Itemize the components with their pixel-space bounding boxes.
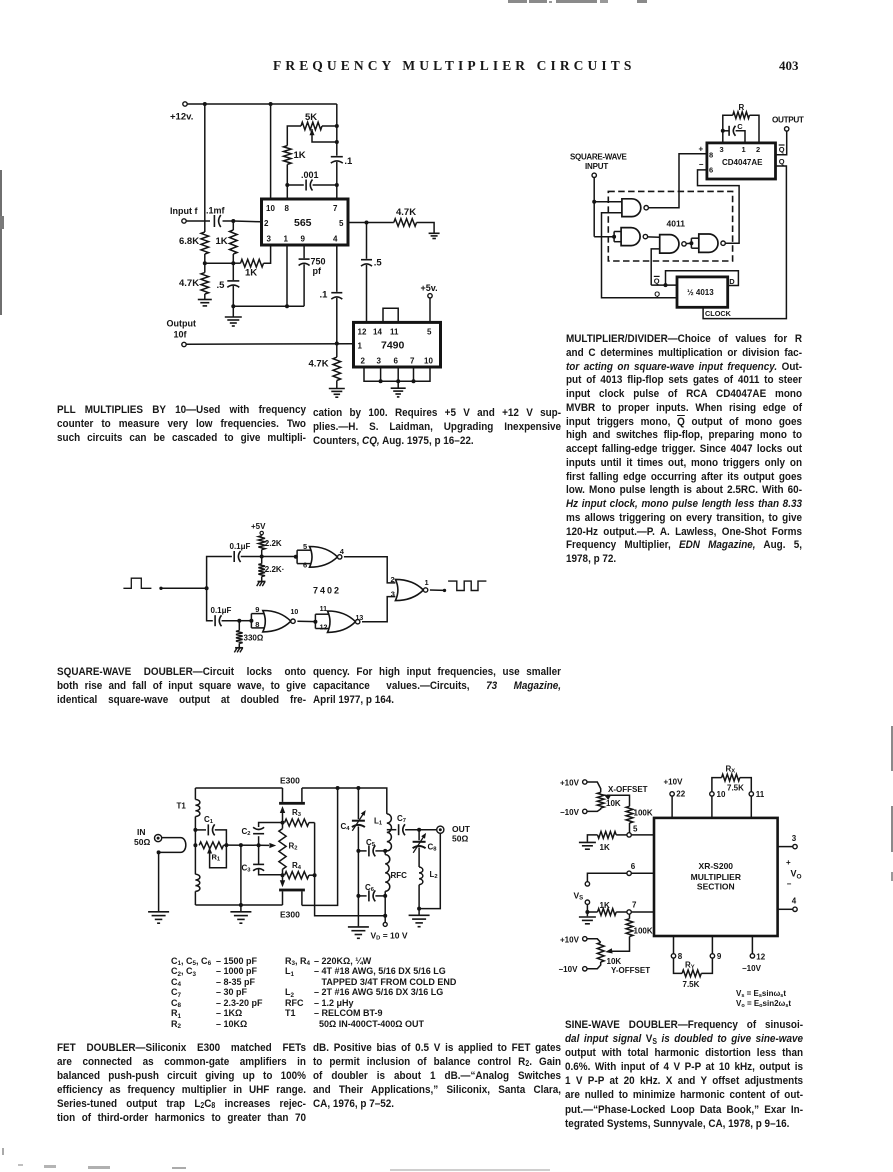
- svg-text:8: 8: [709, 151, 713, 160]
- fet Q2 E300 lower: [279, 875, 305, 905]
- resistor R3: [285, 808, 315, 826]
- wire C4 chain down: [357, 851, 359, 927]
- wire upper branch: [207, 557, 232, 589]
- source Vs top: [585, 882, 589, 886]
- potentiometer R1: [199, 842, 226, 868]
- node coax gnd: [157, 850, 161, 854]
- resistor R4: [285, 861, 315, 879]
- wiper R2 arrow: [259, 843, 277, 848]
- svg-text:−: −: [787, 879, 792, 888]
- wiper 5K: [310, 129, 337, 142]
- wire bottom rail left: [195, 904, 282, 906]
- node L2/gnd: [417, 907, 421, 911]
- node gate1 tie: [294, 555, 298, 559]
- svg-text:C: C: [737, 122, 743, 131]
- node T1/C1: [193, 828, 197, 832]
- wire Qbar stub: [651, 284, 677, 286]
- svg-text:5: 5: [427, 328, 432, 337]
- svg-text:R1: R1: [212, 853, 221, 863]
- node pin5: [365, 221, 369, 225]
- label Vs: [574, 891, 584, 902]
- wire .1 to pin7: [336, 162, 338, 199]
- svg-text:3: 3: [720, 145, 724, 154]
- wire to gate2: [239, 620, 250, 622]
- svg-text:RFC: RFC: [391, 871, 408, 880]
- capacitor .1mf: [206, 206, 226, 228]
- label plus: [699, 145, 704, 154]
- capacitor C5: [358, 838, 385, 856]
- node wiper: [335, 140, 339, 144]
- wire lower branch: [207, 588, 213, 620]
- pin 10: [710, 790, 726, 818]
- svg-text:SECTION: SECTION: [697, 881, 735, 891]
- svg-text:7.5K: 7.5K: [727, 784, 744, 793]
- svg-text:1K: 1K: [294, 150, 306, 161]
- node input/gate1: [592, 200, 596, 204]
- terminal VD: [383, 922, 387, 926]
- pin 22: [670, 789, 686, 818]
- label VD: [371, 931, 408, 942]
- label T1: [177, 802, 187, 811]
- wire pin6: [631, 872, 654, 874]
- wire C7 out: [405, 829, 436, 831]
- svg-text:100K: 100K: [634, 809, 653, 818]
- wire pin9 lower: [303, 264, 305, 306]
- gate U3D 4011: [699, 234, 726, 252]
- svg-text:CLOCK: CLOCK: [705, 309, 732, 318]
- svg-text:+: +: [786, 858, 791, 867]
- input node: [159, 587, 162, 590]
- svg-text:.5: .5: [217, 280, 226, 291]
- wire pin2: [233, 220, 261, 223]
- label +10V 22: [664, 778, 684, 787]
- svg-text:4: 4: [340, 547, 345, 556]
- svg-text:4: 4: [333, 235, 338, 244]
- wire gate1 out to pin8: [648, 154, 707, 208]
- svg-text:2: 2: [756, 145, 760, 154]
- svg-text:R3: R3: [292, 808, 302, 818]
- resistor 330 ohm: [236, 621, 264, 648]
- gate U3C 4011: [660, 235, 687, 254]
- wire gate1 to gate4: [344, 557, 396, 583]
- gate 7402 D: [391, 575, 428, 601]
- wire 4.7K to ground: [204, 294, 206, 299]
- pin 9: [710, 936, 722, 961]
- svg-text:D: D: [729, 277, 735, 286]
- svg-text:RX: RX: [726, 765, 736, 775]
- node .5/rail: [231, 304, 235, 308]
- wire .1 to output rail: [336, 298, 338, 344]
- svg-text:8: 8: [678, 952, 683, 961]
- IC U2 7490: [354, 322, 441, 367]
- wire input to gate2: [594, 236, 614, 238]
- resistor 100K y: [612, 914, 653, 951]
- node bias junction: [203, 261, 207, 265]
- ground 1K x: [579, 842, 596, 849]
- output node: [443, 589, 446, 592]
- label Y-OFFSET: [611, 966, 650, 975]
- power terminal +12v: [170, 102, 193, 123]
- svg-text:3: 3: [267, 235, 272, 244]
- wire R3R4 riser: [315, 823, 386, 916]
- node rail/C4: [356, 786, 360, 790]
- svg-text:100K: 100K: [634, 927, 653, 936]
- svg-text:½ 4013: ½ 4013: [687, 288, 714, 297]
- svg-text:50Ω: 50Ω: [134, 837, 150, 847]
- ground 330: [234, 648, 243, 653]
- svg-text:VS: VS: [574, 891, 584, 902]
- node bias/VD: [383, 914, 387, 918]
- input waveform: [123, 578, 151, 588]
- wire pin5: [631, 834, 654, 836]
- wire +12V rail: [187, 103, 337, 105]
- svg-text:Q: Q: [779, 145, 785, 154]
- capacitor C4 variable: [341, 788, 366, 851]
- svg-text:VO: VO: [791, 869, 802, 881]
- node 1K/.5: [231, 261, 235, 265]
- node gnd4: [412, 379, 416, 383]
- node divider: [260, 555, 264, 559]
- dashed box 4011: [608, 191, 732, 261]
- wire pin4: [336, 245, 338, 292]
- wire pin7: [631, 911, 654, 913]
- resistor R timing: [723, 103, 759, 143]
- svg-text:+: +: [699, 145, 704, 154]
- node gate3 tie: [313, 620, 317, 624]
- svg-text:5: 5: [339, 219, 344, 228]
- wire gate3 to gate4: [686, 242, 691, 244]
- label pin1: [425, 578, 429, 587]
- svg-text:4: 4: [792, 897, 797, 906]
- svg-text:11: 11: [390, 328, 399, 337]
- resistor 6.8K: [179, 232, 209, 254]
- inductor RFC: [385, 851, 407, 896]
- equation Vs: [736, 989, 786, 999]
- wiper X: [604, 794, 630, 806]
- svg-text:12: 12: [358, 328, 367, 337]
- wire gate2 to gate3: [297, 620, 315, 622]
- pin 6: [627, 862, 636, 876]
- svg-text:6.8K: 6.8K: [179, 236, 199, 247]
- wire input: [161, 587, 207, 589]
- wire jumper 14-11: [383, 308, 398, 322]
- wire 7490 grounds: [364, 367, 430, 381]
- IC U5 half 4013: [677, 277, 728, 307]
- svg-text:8: 8: [285, 204, 290, 213]
- wire node link: [226, 844, 258, 846]
- svg-text:C8: C8: [428, 843, 438, 853]
- svg-text:5K: 5K: [305, 112, 317, 123]
- svg-text:OUTPUT: OUTPUT: [772, 116, 804, 125]
- svg-text:1: 1: [742, 145, 746, 154]
- output terminal OUTPUT: [772, 116, 804, 132]
- node input/1K: [231, 219, 235, 223]
- capacitor C timing: [723, 122, 745, 143]
- svg-text:L1: L1: [374, 817, 383, 827]
- wire source return: [302, 788, 338, 905]
- resistor 2.2K lower: [258, 557, 284, 582]
- svg-text:RY: RY: [685, 961, 695, 971]
- resistor 4.7K output: [367, 207, 435, 233]
- svg-text:SQUARE-WAVE: SQUARE-WAVE: [570, 153, 628, 162]
- resistor RX 7.5K: [712, 765, 751, 793]
- svg-text:12: 12: [320, 624, 328, 631]
- svg-text:50Ω: 50Ω: [452, 834, 468, 844]
- svg-text:1K: 1K: [216, 236, 228, 247]
- wire to gate1: [262, 556, 296, 558]
- wire input to cap: [186, 220, 210, 222]
- wire pin6 to Vs: [587, 873, 627, 881]
- svg-text:4.7K: 4.7K: [179, 278, 199, 289]
- wire +12V to 6.8K: [204, 104, 206, 232]
- svg-text:330Ω: 330Ω: [244, 633, 264, 642]
- svg-text:2: 2: [361, 357, 366, 366]
- wire pin1: [286, 245, 288, 306]
- capacitor C1: [195, 815, 226, 845]
- svg-text:−: −: [699, 160, 704, 169]
- capacitor .001: [287, 170, 337, 191]
- resistor 4.7K input bias: [179, 273, 209, 294]
- svg-text:11: 11: [320, 606, 328, 613]
- svg-text:+10V: +10V: [560, 935, 580, 944]
- pin 5: [627, 825, 638, 838]
- wire cap to 330: [222, 620, 240, 622]
- node pin1/rail: [285, 304, 289, 308]
- wire output to Qbar: [776, 131, 787, 155]
- label D: [729, 277, 735, 286]
- svg-text:Output: Output: [167, 319, 197, 329]
- svg-text:11: 11: [756, 790, 765, 799]
- wire top rail right: [302, 788, 387, 814]
- svg-text:1: 1: [358, 342, 363, 351]
- gate2 tie bar: [251, 614, 264, 628]
- wire +5v to pin5: [429, 298, 431, 322]
- node C2C3: [257, 843, 261, 847]
- svg-text:22: 22: [676, 789, 685, 798]
- svg-text:C7: C7: [397, 814, 406, 824]
- potentiometer X 10K: [587, 782, 621, 811]
- label E300 top: [280, 776, 300, 786]
- svg-text:10: 10: [717, 790, 726, 799]
- output terminal 10f: [167, 319, 197, 347]
- svg-text:C4: C4: [341, 822, 351, 832]
- svg-text:10: 10: [266, 204, 275, 213]
- wire pin8: [286, 185, 288, 199]
- capacitor C2: [242, 823, 283, 846]
- svg-text:3: 3: [377, 357, 382, 366]
- fet Q1 E300 upper: [279, 788, 305, 823]
- node R4 right: [313, 873, 317, 877]
- wire cap to node: [241, 556, 262, 558]
- node Qbar/D: [664, 283, 668, 287]
- wire .5 link upper: [366, 223, 368, 259]
- svg-text:3: 3: [792, 834, 797, 843]
- input coupling loop: [159, 838, 186, 853]
- capacitor 750pf: [299, 257, 326, 277]
- schematic: FET doubler: [134, 776, 471, 942]
- svg-text:7402: 7402: [313, 586, 341, 596]
- wiper Y: [605, 948, 612, 953]
- svg-text:3: 3: [391, 589, 395, 598]
- schematic: sine-wave doubler: [559, 765, 802, 1010]
- svg-text:2: 2: [391, 575, 395, 584]
- wire output: [430, 589, 444, 591]
- svg-text:R2: R2: [289, 842, 298, 852]
- output waveform: [448, 581, 486, 590]
- capacitor .1 vco: [331, 156, 353, 167]
- IC U4 CD4047AE: [707, 143, 776, 179]
- svg-text:Vo = Eosin2ωst: Vo = Eosin2ωst: [736, 999, 791, 1009]
- svg-text:MULTIPLIER: MULTIPLIER: [691, 872, 741, 882]
- resistor R2: [279, 823, 298, 876]
- svg-text:Input f: Input f: [170, 206, 198, 216]
- svg-text:2: 2: [264, 219, 269, 228]
- label -10V 12: [742, 964, 762, 973]
- pin 12: [750, 936, 766, 962]
- svg-text:1: 1: [425, 578, 429, 587]
- ground 4.7K output: [429, 233, 440, 238]
- input terminal SQUARE-WAVE INPUT: [570, 153, 628, 178]
- svg-text:.1: .1: [320, 290, 329, 301]
- wire output rail: [186, 343, 353, 345]
- label minus: [699, 160, 704, 169]
- capacitor 0.1uF upper: [230, 542, 251, 562]
- label X-OFFSET: [608, 785, 648, 794]
- svg-text:7: 7: [333, 204, 338, 213]
- svg-text:5: 5: [633, 825, 638, 834]
- svg-text:10: 10: [291, 609, 299, 616]
- node RFC/C6: [383, 894, 387, 898]
- wire mid gnd riser: [240, 845, 242, 905]
- node input split: [205, 586, 209, 590]
- svg-text:10K: 10K: [606, 799, 621, 808]
- gate 7402 C: [320, 606, 360, 632]
- svg-text:Q: Q: [654, 289, 660, 298]
- resistor 1K vco: [284, 146, 306, 165]
- svg-text:Vs = Essinωst: Vs = Essinωst: [736, 989, 786, 999]
- svg-text:0.1μF: 0.1μF: [230, 542, 251, 551]
- resistor 1K pin3: [233, 245, 270, 279]
- resistor RY 7.5K: [674, 958, 713, 989]
- equation Vo: [736, 999, 791, 1009]
- svg-text:Q: Q: [654, 277, 660, 286]
- svg-text:C5: C5: [366, 838, 376, 848]
- resistor 4.7K pulldown: [309, 344, 341, 389]
- svg-text:9: 9: [255, 605, 259, 614]
- schematic: PLL multiplies by 10: [167, 102, 441, 397]
- node +12V/pin10: [269, 102, 273, 106]
- svg-text:6: 6: [303, 560, 307, 569]
- ground 4.7K pulldown: [329, 389, 345, 398]
- label Qbar 4047: [779, 145, 785, 154]
- potentiometer 5K: [287, 112, 337, 146]
- gate2 input tie: [614, 232, 621, 242]
- svg-text:VD = 10 V: VD = 10 V: [371, 931, 408, 942]
- node C left: [721, 129, 725, 133]
- svg-text:.5: .5: [374, 258, 383, 269]
- ground 7490: [391, 381, 406, 397]
- wire Qbar to gate3B: [651, 249, 660, 285]
- node T1/R1: [193, 843, 197, 847]
- node gnd3: [396, 379, 400, 383]
- svg-text:Q: Q: [779, 157, 785, 166]
- node rail/drop: [336, 786, 340, 790]
- label E300 bottom: [280, 910, 300, 920]
- ground output: [409, 909, 430, 927]
- label Qbar 4013: [654, 276, 660, 285]
- wire pin7 chain: [336, 104, 338, 156]
- node gnd2: [379, 379, 383, 383]
- svg-text:X-OFFSET: X-OFFSET: [608, 785, 648, 794]
- gate4 input tie: [691, 238, 698, 248]
- capacitor .1 link: [320, 290, 343, 301]
- node gate lower: [281, 873, 285, 877]
- svg-text:R4: R4: [292, 861, 302, 871]
- svg-text:565: 565: [294, 217, 312, 229]
- svg-text:10K: 10K: [607, 957, 622, 966]
- source Vs bottom: [585, 900, 589, 904]
- gate1 tie bar: [297, 550, 311, 563]
- wire .5 link lower: [366, 265, 368, 323]
- svg-text:1K: 1K: [600, 843, 610, 852]
- svg-text:+10V: +10V: [664, 778, 684, 787]
- svg-text:8: 8: [255, 620, 259, 629]
- svg-text:+10V: +10V: [560, 779, 580, 788]
- power terminal +5v: [421, 283, 438, 298]
- resistor 1K input: [216, 221, 238, 254]
- node gate upper: [281, 821, 285, 825]
- input terminal Input f: [170, 206, 198, 223]
- svg-text:IN: IN: [137, 827, 146, 837]
- node +12V/6.8K: [203, 102, 207, 106]
- node gate4 tie: [689, 241, 693, 245]
- node output/4.7K: [335, 342, 339, 346]
- wire pin10: [270, 104, 272, 199]
- input connector IN 50ohm: [134, 827, 162, 847]
- gate U3B 4011: [621, 228, 648, 246]
- capacitor C8 variable: [413, 830, 438, 867]
- wire OUT down: [419, 833, 440, 908]
- pin 7: [627, 901, 637, 915]
- svg-text:+5v.: +5v.: [421, 283, 438, 293]
- svg-text:6: 6: [631, 862, 636, 871]
- IC U1 565: [262, 199, 349, 245]
- svg-text:10f: 10f: [174, 330, 188, 340]
- wire gate3 to gate4: [362, 597, 395, 622]
- resistor 1K y: [587, 901, 627, 915]
- node .001 right: [335, 183, 339, 187]
- wire coax gnd: [158, 852, 160, 911]
- pin 11: [749, 790, 765, 818]
- wire 1K to .001: [286, 164, 288, 185]
- terminal +10V x: [560, 779, 587, 788]
- wire cap to node: [223, 220, 234, 222]
- wire L2 down: [418, 885, 420, 909]
- wire pin5: [348, 222, 367, 224]
- svg-text:E300: E300: [280, 910, 300, 920]
- ground input bias: [198, 300, 212, 306]
- terminal -10V y: [559, 965, 588, 974]
- svg-text:6: 6: [709, 166, 713, 175]
- svg-text:.1: .1: [344, 156, 353, 167]
- gate3 tie bar: [315, 614, 329, 628]
- wire VD: [384, 896, 386, 922]
- node mid: [239, 843, 243, 847]
- label Q 4013: [654, 289, 660, 298]
- transformer T1: [195, 788, 199, 905]
- pin 4: [778, 897, 798, 912]
- wire Q to gate1B: [602, 213, 678, 298]
